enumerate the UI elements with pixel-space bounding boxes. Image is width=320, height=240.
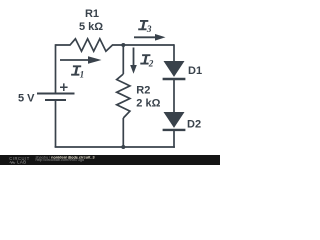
battery V1 top plate (37, 93, 75, 95)
battery plus sign (60, 83, 68, 91)
svg-text:2: 2 (148, 59, 154, 69)
wire top with resistor R1 zigzag (56, 39, 175, 51)
current arrow I2 (130, 48, 137, 74)
svg-text:1: 1 (80, 70, 85, 80)
svg-text:R1: R1 (85, 8, 99, 20)
svg-text:3: 3 (146, 24, 152, 34)
node junction dot top (121, 43, 125, 47)
svg-text:5 V: 5 V (18, 93, 35, 105)
svg-text:R2: R2 (136, 85, 150, 97)
label I2 (140, 55, 154, 68)
svg-text:2 kΩ: 2 kΩ (136, 98, 160, 110)
svg-text:5 kΩ: 5 kΩ (79, 21, 103, 33)
wire right branch segments (173, 44, 175, 148)
svg-text:D1: D1 (188, 65, 202, 77)
wire bottom (55, 146, 175, 148)
svg-text:LAB: LAB (17, 160, 26, 165)
current arrow I3 (134, 34, 166, 41)
diode D1 (163, 61, 186, 79)
footer bar (0, 155, 220, 165)
wire left lower (battery to bottom) (55, 101, 57, 147)
label I3 (138, 21, 152, 34)
footer CircuitLab logo (9, 156, 29, 164)
node junction dot bottom (121, 145, 125, 149)
svg-text:http://circuitlab.com/99873gd: http://circuitlab.com/99873gd (36, 158, 85, 162)
diode D2 (163, 112, 186, 130)
wire left upper (to battery) (55, 44, 57, 92)
wire middle branch segments (122, 45, 124, 147)
battery bottom plate (45, 99, 66, 101)
label I1 (71, 66, 84, 79)
resistor R2 zigzag (117, 74, 130, 118)
current arrow I1 (60, 56, 102, 64)
svg-text:D2: D2 (187, 119, 201, 131)
